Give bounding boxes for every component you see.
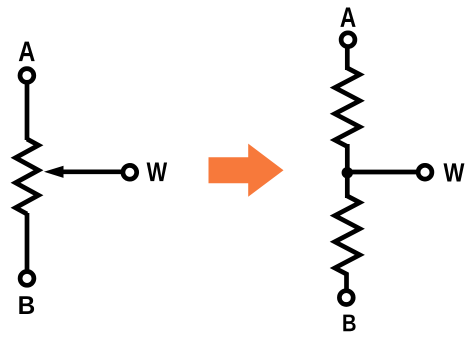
label A (left) xyxy=(19,42,35,62)
label B (right) xyxy=(343,315,355,332)
terminal B (right) xyxy=(339,291,353,305)
resistor R1 (right upper) xyxy=(335,68,360,147)
label B (left) xyxy=(19,296,34,314)
node junction dot xyxy=(342,167,353,178)
label A (right) xyxy=(340,8,355,27)
terminal W (left) xyxy=(123,165,137,179)
wire A to R1 (right) xyxy=(345,44,350,70)
label W (left) xyxy=(147,163,168,182)
wire R1 to node xyxy=(345,144,350,198)
potentiometer R1 body xyxy=(16,139,39,214)
wire R2 to B (right) xyxy=(344,273,349,293)
terminal A (right) xyxy=(341,33,355,47)
wiper arrowhead xyxy=(44,166,64,178)
terminal A (left) xyxy=(20,69,34,83)
label W (right) xyxy=(444,163,465,181)
resistor R2 (right lower) xyxy=(335,196,360,275)
terminal W (right) xyxy=(418,165,432,179)
wiper wire W xyxy=(58,169,122,174)
wire node to W (right) xyxy=(347,170,418,175)
wire potentiometer to B xyxy=(25,213,30,274)
conversion arrow xyxy=(209,144,284,197)
wire A to potentiometer xyxy=(25,80,30,140)
terminal B (left) xyxy=(20,272,34,286)
